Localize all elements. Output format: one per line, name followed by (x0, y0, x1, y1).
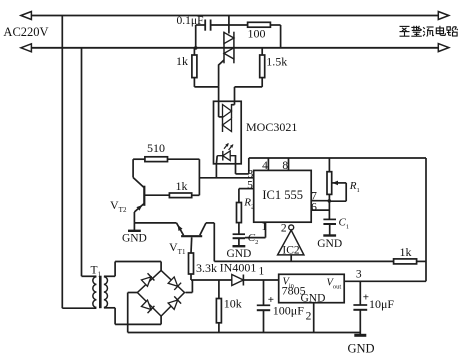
bridge rectifier diamond (137, 270, 184, 316)
arrow left AC line 1 (21, 12, 32, 20)
wire 555 pin 8 (288, 158, 290, 170)
wire LED cathode down (MOC pin bottom-left) (215, 156, 218, 164)
photo-triac inside MOC3021 (231, 104, 233, 118)
svg-text:10μF: 10μF (369, 297, 394, 311)
svg-text:GND: GND (226, 248, 251, 260)
wire emitter line VT2-VT1 (134, 222, 176, 224)
wire R1 top (328, 158, 330, 172)
wire MOC pin top-left (from triac gate) (218, 87, 220, 117)
wire Vcc rail right drop (425, 158, 427, 281)
triac VS (bidirectional thyristor) (223, 32, 225, 64)
svg-text:1k: 1k (176, 179, 188, 193)
svg-text:0.1μF: 0.1μF (177, 15, 204, 27)
wire 555 pin 1 to C2/ground node (265, 222, 267, 237)
wire R2 bottom to C2 (238, 223, 240, 235)
bridge diode top-left (141, 277, 151, 286)
wire 555 pin 4 (267, 158, 269, 170)
wire 1.5k bottom to MOC pin (261, 78, 263, 87)
potentiometer R1 (327, 172, 332, 195)
wire bottom ground rail (128, 332, 361, 334)
wire secondary bottom to bridge (104, 307, 115, 309)
transformer T1 core (99, 276, 102, 309)
svg-text:4: 4 (262, 160, 268, 172)
svg-text:IN4001: IN4001 (220, 261, 257, 275)
wire DC rail (191, 279, 279, 281)
resistor 3.3k (189, 253, 194, 274)
transformer T1 primary winding (93, 277, 97, 308)
svg-text:AC220V: AC220V (3, 25, 48, 39)
ground C1 (329, 224, 331, 236)
svg-text:1: 1 (259, 266, 265, 278)
resistor 1k (VT2 base) (169, 193, 191, 198)
R1 wiper arrow (332, 181, 338, 186)
ground VT2 (133, 223, 135, 231)
capacitor 0.1uF (204, 20, 206, 31)
resistor R2 (237, 203, 242, 223)
inverter IC2 triangle (278, 230, 304, 255)
svg-text:100μF: 100μF (273, 304, 304, 318)
svg-text:MOC3021: MOC3021 (246, 120, 297, 134)
resistor 510 (145, 157, 168, 162)
wire 10k top (218, 280, 220, 299)
wire triac top terminal (228, 16, 230, 34)
wire 3.3k bottom to DC rail (190, 274, 192, 280)
svg-text:IC2: IC2 (282, 244, 300, 256)
svg-text:1k: 1k (176, 54, 188, 68)
resistor 1k (gate network left) (192, 55, 197, 78)
wire 10uF top (359, 281, 361, 305)
LED inside MOC3021 (217, 155, 236, 157)
wire 10k bottom (218, 323, 220, 333)
label to-rectifier-circuit (Chinese) (400, 26, 458, 36)
inverter IC2 bubble (289, 225, 294, 230)
light arrows inside MOC3021 (224, 144, 228, 149)
node junction on AC line 2 (194, 46, 198, 50)
wire Vcc rail (249, 157, 426, 159)
svg-text:3: 3 (356, 269, 362, 281)
svg-text:100: 100 (248, 27, 266, 41)
arrow left AC line 2 (21, 44, 32, 52)
transformer T1 secondary winding (104, 277, 108, 308)
wire 510 left to VT2 collector (133, 158, 145, 160)
wire secondary top to bridge (104, 275, 115, 277)
wire 1k top (193, 48, 195, 55)
wire capacitor to resistor 100 (211, 24, 248, 26)
wire LED anode down and to Vcc rail (MOC pin bottom-right) (235, 156, 237, 174)
bridge diode bottom-right (168, 300, 178, 309)
capacitor C1 (323, 218, 336, 220)
resistor 1.5k (260, 55, 265, 78)
wire bridge + output riser (186, 292, 193, 294)
svg-text:GND: GND (317, 238, 342, 250)
wire 1k bottom to gate (193, 78, 195, 87)
wire 1k right end to rail drop (417, 260, 426, 262)
node pin6/7-R1-C1 (328, 199, 332, 203)
arrow right AC line 2 (438, 44, 449, 52)
wire 7805 pin 2 down (313, 303, 315, 333)
wire 555 pin 5 (239, 188, 254, 190)
svg-text:5: 5 (247, 180, 253, 192)
bridge diode top-right (168, 277, 178, 286)
wire 10uF bottom (359, 310, 361, 334)
arrow right AC line 1 (438, 12, 449, 20)
svg-text:IC1 555: IC1 555 (262, 188, 303, 202)
wire 7805 output pin 3 (344, 280, 426, 282)
wire bridge minus to bottom rail (128, 292, 138, 294)
svg-text:GND: GND (347, 342, 374, 356)
capacitor C2 (233, 233, 245, 235)
diode IN4001 (232, 275, 244, 286)
wire triac gate (219, 60, 224, 87)
voltage regulator 7805 box (279, 274, 345, 302)
wire VT1 collector to long output line (206, 222, 214, 224)
wire 1k base right to node (192, 194, 200, 196)
wire 100uF top (263, 280, 265, 305)
transistor VT2 (143, 186, 145, 206)
wire resistor 100 down to AC line 2 (270, 24, 280, 26)
wire 100uF bottom (263, 310, 265, 332)
wire long line to right 1k (214, 260, 393, 262)
wire capacitor branch up (195, 25, 197, 48)
svg-text:GND: GND (122, 233, 147, 245)
resistor 1k (right) (394, 259, 417, 264)
svg-text:8: 8 (282, 160, 288, 172)
wire 555 pin 7 (311, 200, 329, 202)
svg-text:10k: 10k (224, 297, 242, 311)
wire 1.5k top (261, 48, 263, 55)
ground bottom rail (354, 334, 366, 337)
svg-text:2: 2 (306, 311, 312, 323)
IC1 555 box (254, 170, 312, 222)
svg-text:1.5k: 1.5k (266, 55, 287, 69)
optocoupler U1 MOC3021 box (214, 101, 242, 164)
svg-text:510: 510 (147, 141, 165, 155)
wire 555 pin 6 (311, 209, 329, 211)
resistor 100 (248, 22, 271, 27)
wire VT1 base down to 3.3k (190, 237, 193, 253)
wire IC2 output down (290, 255, 292, 262)
bridge diode bottom-left (141, 300, 151, 309)
svg-text:3.3k: 3.3k (196, 261, 217, 275)
svg-text:6: 6 (311, 202, 317, 214)
svg-text:1: 1 (261, 221, 267, 233)
wire VT2 emitter to ground (133, 212, 135, 223)
wire MOC pin top-right (from 1.5k) (234, 101, 236, 104)
wire 555 pin3 line (199, 177, 253, 179)
transistor VT1 (181, 235, 202, 237)
ground C2 (238, 238, 240, 246)
wire AC line 1 (top) (31, 15, 439, 17)
wire AC line 2 (31, 47, 439, 49)
resistor 10k (216, 299, 221, 323)
wire R1 bottom / node (328, 194, 330, 219)
wire from AC line1 down to transformer primary bottom (61, 16, 63, 309)
wire 510 right down to node (168, 158, 200, 160)
wire from AC line2 down to transformer primary top (81, 48, 83, 276)
svg-text:2: 2 (281, 223, 287, 235)
svg-text:1k: 1k (400, 245, 412, 259)
